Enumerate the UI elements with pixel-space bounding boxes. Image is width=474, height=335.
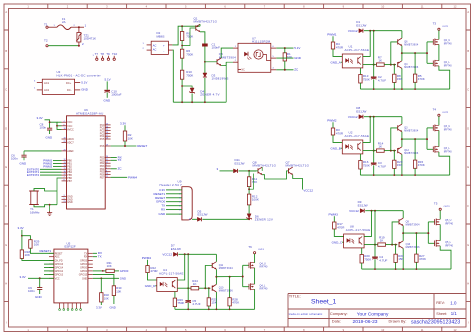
svg-text:MMBT3904: MMBT3904 [406,224,421,227]
wire mosfet midpoint [254,268,256,284]
svg-text:T6: T6 [248,245,252,249]
svg-text:15K: 15K [397,77,402,81]
svg-text:ACPL-217-56AE: ACPL-217-56AE [345,48,370,52]
title block [288,294,466,328]
svg-text:MMBT3906: MMBT3906 [219,290,234,293]
svg-text:470K: 470K [419,257,426,261]
svg-text:DC-: DC- [67,88,72,92]
svg-text:19: 19 [64,138,66,140]
svg-text:100n: 100n [28,289,35,293]
svg-text:ATMEGA328P-AU: ATMEGA328P-AU [76,111,103,115]
wire low side source to rail [439,66,450,89]
svg-text:GPIO14: GPIO14 [55,268,64,270]
svg-text:GND: GND [46,136,54,140]
wire U7 output [276,69,293,71]
svg-text:Your Company: Your Company [357,311,389,317]
resistor R5 470K [414,53,416,74]
svg-text:GPIO2: GPIO2 [80,271,88,273]
wires ESP pullups [21,230,23,250]
wire PWM1 to resistor [332,36,334,42]
svg-text:AC1: AC1 [44,81,50,85]
svg-text:Sheet:: Sheet: [436,312,447,316]
svg-text:MMBT3904: MMBT3904 [404,130,419,133]
wire R10 to bottom rail [181,79,183,102]
svg-text:TX: TX [98,255,102,259]
svg-text:OUT2: OUT2 [442,112,449,114]
wire resistor to opto anode [333,135,342,142]
svg-text:100n: 100n [11,157,18,161]
svg-text:ACPL-217-56AE: ACPL-217-56AE [159,272,184,276]
resistor R9 750K [181,26,183,31]
resistor R22 470R [146,266,149,273]
wire resistor to opto anode [334,229,343,236]
svg-text:ES1JW: ES1JW [356,23,366,27]
ground symbol below crystal [49,205,51,211]
svg-text:GND_B: GND_B [330,146,340,150]
svg-text:Header 2.54 7: Header 2.54 7 [160,183,183,187]
svg-text:27: 27 [106,135,108,137]
svg-text:16: 16 [64,171,66,173]
svg-text:PB7: PB7 [67,180,72,183]
svg-text:100nF: 100nF [212,46,221,50]
wire Q1 base [182,28,196,46]
svg-text:-: - [163,49,164,53]
svg-text:OUT3: OUT3 [444,206,451,208]
svg-text:Date:: Date: [332,318,341,323]
svg-text:Drawn By:: Drawn By: [389,319,407,324]
wire opto emitter [364,244,378,246]
wire resistor to opto anode [148,273,157,280]
wire top rail [182,25,198,27]
wire Q8 Q7 collectors [261,167,263,171]
svg-text:750K: 750K [186,52,193,56]
svg-text:T10: T10 [112,52,118,56]
capacitor C6 100n at AREF [24,150,62,152]
svg-text:IRF740: IRF740 [260,266,269,269]
wire R12 to D6 [248,205,250,214]
svg-text:TX: TX [118,158,122,162]
svg-text:2A: 2A [62,20,66,24]
resistor R16 750K [359,154,361,161]
svg-text:G: G [467,243,469,247]
svg-text:AREF: AREF [67,150,74,153]
svg-text:GPIO4: GPIO4 [80,264,88,266]
svg-text:4: 4 [64,121,65,123]
wire Q8 emitter to Q7 base [262,171,288,179]
svg-text:IRF740: IRF740 [445,244,454,247]
wire U7 vcc to 5.1V [276,47,293,49]
svg-text:10K: 10K [116,289,121,293]
wire pnp collector to rail bottom [402,248,404,269]
svg-text:lceda.cn editor schematic: lceda.cn editor schematic [289,313,323,316]
net labels RX TX at PD0 PD1 [111,157,117,159]
svg-text:VCC12: VCC12 [303,188,313,192]
svg-text:H: H [5,282,7,286]
svg-text:VCC12: VCC12 [348,29,358,33]
svg-text:C: C [467,88,469,92]
svg-text:D: D [5,126,7,130]
svg-text:ZENER 4.7V: ZENER 4.7V [200,93,219,97]
wire R6 to R10 [181,58,183,70]
capacitor C5 4.7UF [187,254,189,300]
svg-text:IRF740: IRF740 [260,288,269,291]
wire VCC12 rail [364,30,402,32]
svg-text:7: 7 [64,177,65,179]
svg-text:ES1JW: ES1JW [358,203,368,207]
svg-text:470R: 470R [336,45,344,49]
svg-text:T8: T8 [100,52,104,56]
svg-text:T2: T2 [44,39,48,43]
svg-text:470R: 470R [336,131,344,135]
wire Q1 emitter to C1 [200,32,205,44]
svg-text:RESET1: RESET1 [40,249,52,253]
resistor R3 470R [331,128,334,135]
svg-text:5.1V: 5.1V [294,46,300,50]
svg-text:2019-06-23: 2019-06-23 [353,319,378,325]
svg-text:ES1JW: ES1JW [198,213,208,217]
wire opto collector up [364,211,371,237]
wire opto collector up [363,117,370,143]
wire gate bus [427,222,429,243]
wire npn collector to rail [215,254,217,261]
svg-text:4.7UF: 4.7UF [378,78,386,82]
svg-text:470K: 470K [418,163,425,167]
varistor TZ1 10D471K [78,27,80,32]
U6 right pins [105,124,110,126]
wire channel ground rail [362,268,451,270]
svg-text:17: 17 [64,174,66,176]
wire channel ground rail [360,88,449,90]
svg-text:VCC: VCC [67,121,72,124]
resistor R4 470R [331,42,334,49]
capacitor C1 100nF [202,44,208,47]
wires crystal to U6 [34,189,57,191]
svg-text:NC: NC [242,69,246,71]
svg-text:GND: GND [67,201,73,204]
resistor R26 750K [174,292,176,299]
svg-text:13: 13 [64,162,66,164]
wire to transistor bases [384,150,396,152]
svg-text:5.1V: 5.1V [81,80,87,84]
svg-text:IRF740: IRF740 [444,128,453,131]
pin wires D2 [147,44,152,46]
U5 left pins [49,252,54,254]
U5 bottom pins [59,303,61,309]
svg-text:ZENER 12V: ZENER 12V [255,218,273,222]
resistor R20 750K [361,248,363,255]
wire U7 pin5 to GND [276,57,293,59]
svg-text:VCC12: VCC12 [348,115,358,119]
svg-text:4.7UF: 4.7UF [378,164,386,168]
svg-text:3.3V: 3.3V [96,306,102,310]
svg-text:GPIO0: GPIO0 [80,268,88,270]
svg-text:750K: 750K [363,163,370,167]
wire opto collector up [363,31,370,57]
pin stubs U7 [233,47,238,49]
wire Q7 emitter to VCC12 [293,175,303,190]
svg-text:OUT1: OUT1 [442,26,449,28]
net labels RX TX at ESP right [93,252,97,254]
svg-text:AC: AC [153,48,157,52]
svg-text:B: B [467,49,469,53]
svg-text:24: 24 [106,126,108,128]
svg-text:A: A [467,10,469,14]
svg-text:VCC: VCC [55,278,60,280]
svg-text:E: E [467,165,469,169]
svg-text:12: 12 [64,159,66,161]
svg-text:3.3V: 3.3V [120,121,126,125]
capacitor C2 4.7UF [373,31,375,77]
capacitor C9 100n [39,278,41,287]
svg-text:GPIO12: GPIO12 [55,271,64,273]
svg-text:T3: T3 [433,21,437,25]
wire opto collector up [177,254,184,280]
svg-text:470R: 470R [150,269,158,273]
svg-text:6: 6 [64,124,65,126]
svg-text:AVCC: AVCC [67,128,74,131]
resistor R29 10K [29,240,32,249]
svg-text:MMBT3904: MMBT3904 [219,267,234,270]
wire channel ground rail [175,308,255,310]
svg-text:T7: T7 [95,52,99,56]
crystal Y1 16MHz [31,191,37,205]
wire emitters and gate drive [215,269,217,284]
wire bridge minus down [171,50,174,102]
svg-text:MMBTA42LT1G: MMBTA42LT1G [286,164,310,168]
svg-text:15K: 15K [211,301,216,305]
U9 pins and net labels [166,189,182,191]
wire T1 to fuse [48,26,57,28]
svg-text:Company:: Company: [330,311,348,316]
capacitor C3 4.7UF [373,117,375,163]
svg-text:RX: RX [84,257,88,259]
svg-text:TITLE:: TITLE: [289,294,301,299]
svg-text:GPIO15: GPIO15 [79,275,88,277]
resistor R30 10K [93,275,114,286]
svg-text:MMBT3904: MMBT3904 [404,44,419,47]
resistor R32 10K [100,278,102,292]
svg-text:GND: GND [81,88,89,92]
svg-text:18: 18 [64,128,66,130]
svg-text:GND: GND [20,161,28,165]
svg-text:8: 8 [64,180,65,182]
resistor R23 15K [393,151,395,161]
net labels EXTINT at PB3-PB5 [40,168,62,170]
svg-text:REV:: REV: [436,301,445,305]
svg-text:RESET: RESET [137,144,147,148]
svg-text:IRF740: IRF740 [444,150,453,153]
wire fuse to node [71,26,84,28]
svg-text:1/1: 1/1 [451,311,458,316]
svg-text:9: 9 [106,170,107,172]
svg-text:RX: RX [161,208,165,212]
svg-text:100K: 100K [252,198,259,202]
wire emitters and gate drive [401,132,403,147]
svg-text:GPIO16: GPIO16 [55,264,64,266]
wire R9 to R6 [181,41,183,50]
svg-text:75K: 75K [252,180,257,184]
wire gate bus [242,265,244,286]
resistor R8 15K [393,65,395,75]
wire opto emitter [363,150,377,152]
wire D11 to Q8 [239,170,257,172]
svg-text:15K: 15K [398,257,403,261]
wire pnp collector to rail bottom [401,154,403,175]
svg-text:EXTINT2: EXTINT2 [27,173,40,177]
resistor R10 750K [180,70,183,79]
svg-text:10: 10 [106,173,108,175]
wire PWM3 to resistor [333,216,335,222]
svg-text:ACPL-217-56AE: ACPL-217-56AE [346,228,371,232]
resistor R1 10K pullup [283,53,286,61]
svg-text:IRF740: IRF740 [444,42,453,45]
svg-text:3.3V: 3.3V [20,275,26,279]
wire emitters and gate drive [401,46,403,61]
svg-text:ADC: ADC [55,256,60,259]
resistor R13 750K [359,68,361,75]
diode D3 1N5819WS [203,73,207,77]
svg-text:31: 31 [106,159,108,161]
svg-text:32: 32 [106,162,108,164]
wire drain to terminal [254,254,256,263]
svg-text:GND_A: GND_A [330,60,340,64]
svg-text:3.3V: 3.3V [37,116,43,120]
svg-text:5.1V: 5.1V [105,78,111,82]
svg-text:5: 5 [64,198,65,200]
svg-text:1K: 1K [378,59,382,63]
wire mosfet midpoint [439,225,441,241]
svg-text:10K: 10K [34,243,39,247]
svg-text:750K: 750K [177,301,184,305]
zener D4 4.7V [182,86,192,88]
svg-text:PWM4: PWM4 [128,175,137,179]
wire Q1 collector [199,24,201,26]
svg-text:IRF740: IRF740 [445,222,454,225]
svg-text:PWM4: PWM4 [142,256,152,260]
resistor R27 470K [415,233,417,254]
svg-text:H: H [467,282,469,286]
wire gate bus [426,128,428,149]
svg-text:PWM3: PWM3 [43,164,52,168]
wire PWM4 to resistor [147,260,149,266]
svg-text:T9: T9 [106,52,110,56]
stub wires ESP left gpio [44,263,54,265]
wire U7 pin2 to bottom rail [225,62,227,102]
svg-text:10K: 10K [25,253,30,257]
wire npn collector to rail [401,31,403,38]
svg-text:11: 11 [106,176,108,178]
svg-text:MMBT3906: MMBT3906 [404,152,419,155]
svg-text:22: 22 [64,141,66,143]
resistor R15 470K [414,139,416,160]
svg-text:Sheet_1: Sheet_1 [311,299,337,306]
wire VCC12 rail [365,210,403,212]
wire npn collector to rail [402,211,404,218]
svg-text:ES1JW: ES1JW [356,109,366,113]
svg-text:MB6S: MB6S [157,34,165,38]
svg-text:T5: T5 [434,201,438,205]
U6 left pins [62,121,67,123]
wire mosfet midpoint [438,131,440,147]
svg-text:4.7UF: 4.7UF [379,258,387,262]
svg-text:MMBT3906: MMBT3906 [406,246,421,249]
wire emitters and gate drive [402,226,404,241]
wire VCC12 rail [364,116,402,118]
svg-text:1.0: 1.0 [450,300,457,305]
wire drain to terminal [439,210,441,219]
svg-text:GND: GND [104,98,112,102]
U5 right pins [88,252,93,254]
wire pnp collector to rail bottom [401,68,403,89]
svg-text:DC+: DC+ [66,81,72,85]
svg-text:B: B [5,49,7,53]
wire Q5 collector to U7 [221,48,233,58]
wire PWM2 to resistor [332,122,334,128]
wire low side source to rail [440,246,451,269]
wire ESP GND pin [93,277,119,279]
wire resistor to opto anode [333,49,342,56]
wire R11 to R12 [248,187,250,195]
svg-text:1000uF: 1000uF [111,93,121,97]
svg-text:PC5: PC5 [100,138,105,141]
svg-text:D: D [467,126,469,130]
wire npn collector to rail [401,117,403,124]
svg-text:GPIO5: GPIO5 [80,260,88,262]
wire C1 down to Q5 base and D3 [204,47,206,75]
resistor R17 470R [333,222,336,229]
svg-text:A: A [5,10,7,14]
net labels PWM1 PWM2 PWM3 at PB0-PB2 [53,160,62,162]
wire drain to terminal [438,116,440,125]
zener D6 12V [247,214,251,219]
wire opto emitter [177,287,191,289]
svg-text:E: E [5,165,7,169]
wire low side source to rail [254,289,256,309]
resistor R18 10K [20,250,23,259]
svg-text:25: 25 [106,129,108,131]
svg-text:MMBTA42LT1G: MMBTA42LT1G [194,20,218,24]
wire PC6 reset [111,145,137,147]
svg-text:15K: 15K [397,163,402,167]
resistor R28 470K [229,277,231,298]
resistor R25 15K [208,288,210,298]
svg-text:HLK-PM01 - AC-DC converter: HLK-PM01 - AC-DC converter [57,74,101,78]
wire mosfet midpoint [438,45,440,61]
svg-text:G: G [5,243,7,247]
svg-text:10K: 10K [128,136,133,140]
wire pnp collector to rail bottom [215,292,217,309]
svg-text:PC6: PC6 [100,145,105,148]
svg-text:10K: 10K [107,264,112,268]
svg-text:470K: 470K [232,301,239,305]
svg-text:470K: 470K [418,77,425,81]
svg-text:28: 28 [106,138,108,140]
svg-text:GND_C: GND_C [332,240,343,244]
svg-text:PWM3: PWM3 [329,212,339,216]
svg-text:ESP12F: ESP12F [65,245,76,249]
svg-text:750K: 750K [186,73,193,77]
svg-text:100n: 100n [40,126,47,130]
svg-text:GND: GND [120,277,126,281]
svg-text:GND: GND [159,212,167,216]
svg-text:30: 30 [106,156,108,158]
svg-text:2: 2 [106,167,107,169]
wire Q8 base from divider [249,174,253,190]
svg-text:26: 26 [106,132,108,134]
svg-text:MMBT3906: MMBT3906 [404,66,419,69]
wire VCC12 rail [178,253,216,255]
svg-text:PWM2: PWM2 [327,118,337,122]
